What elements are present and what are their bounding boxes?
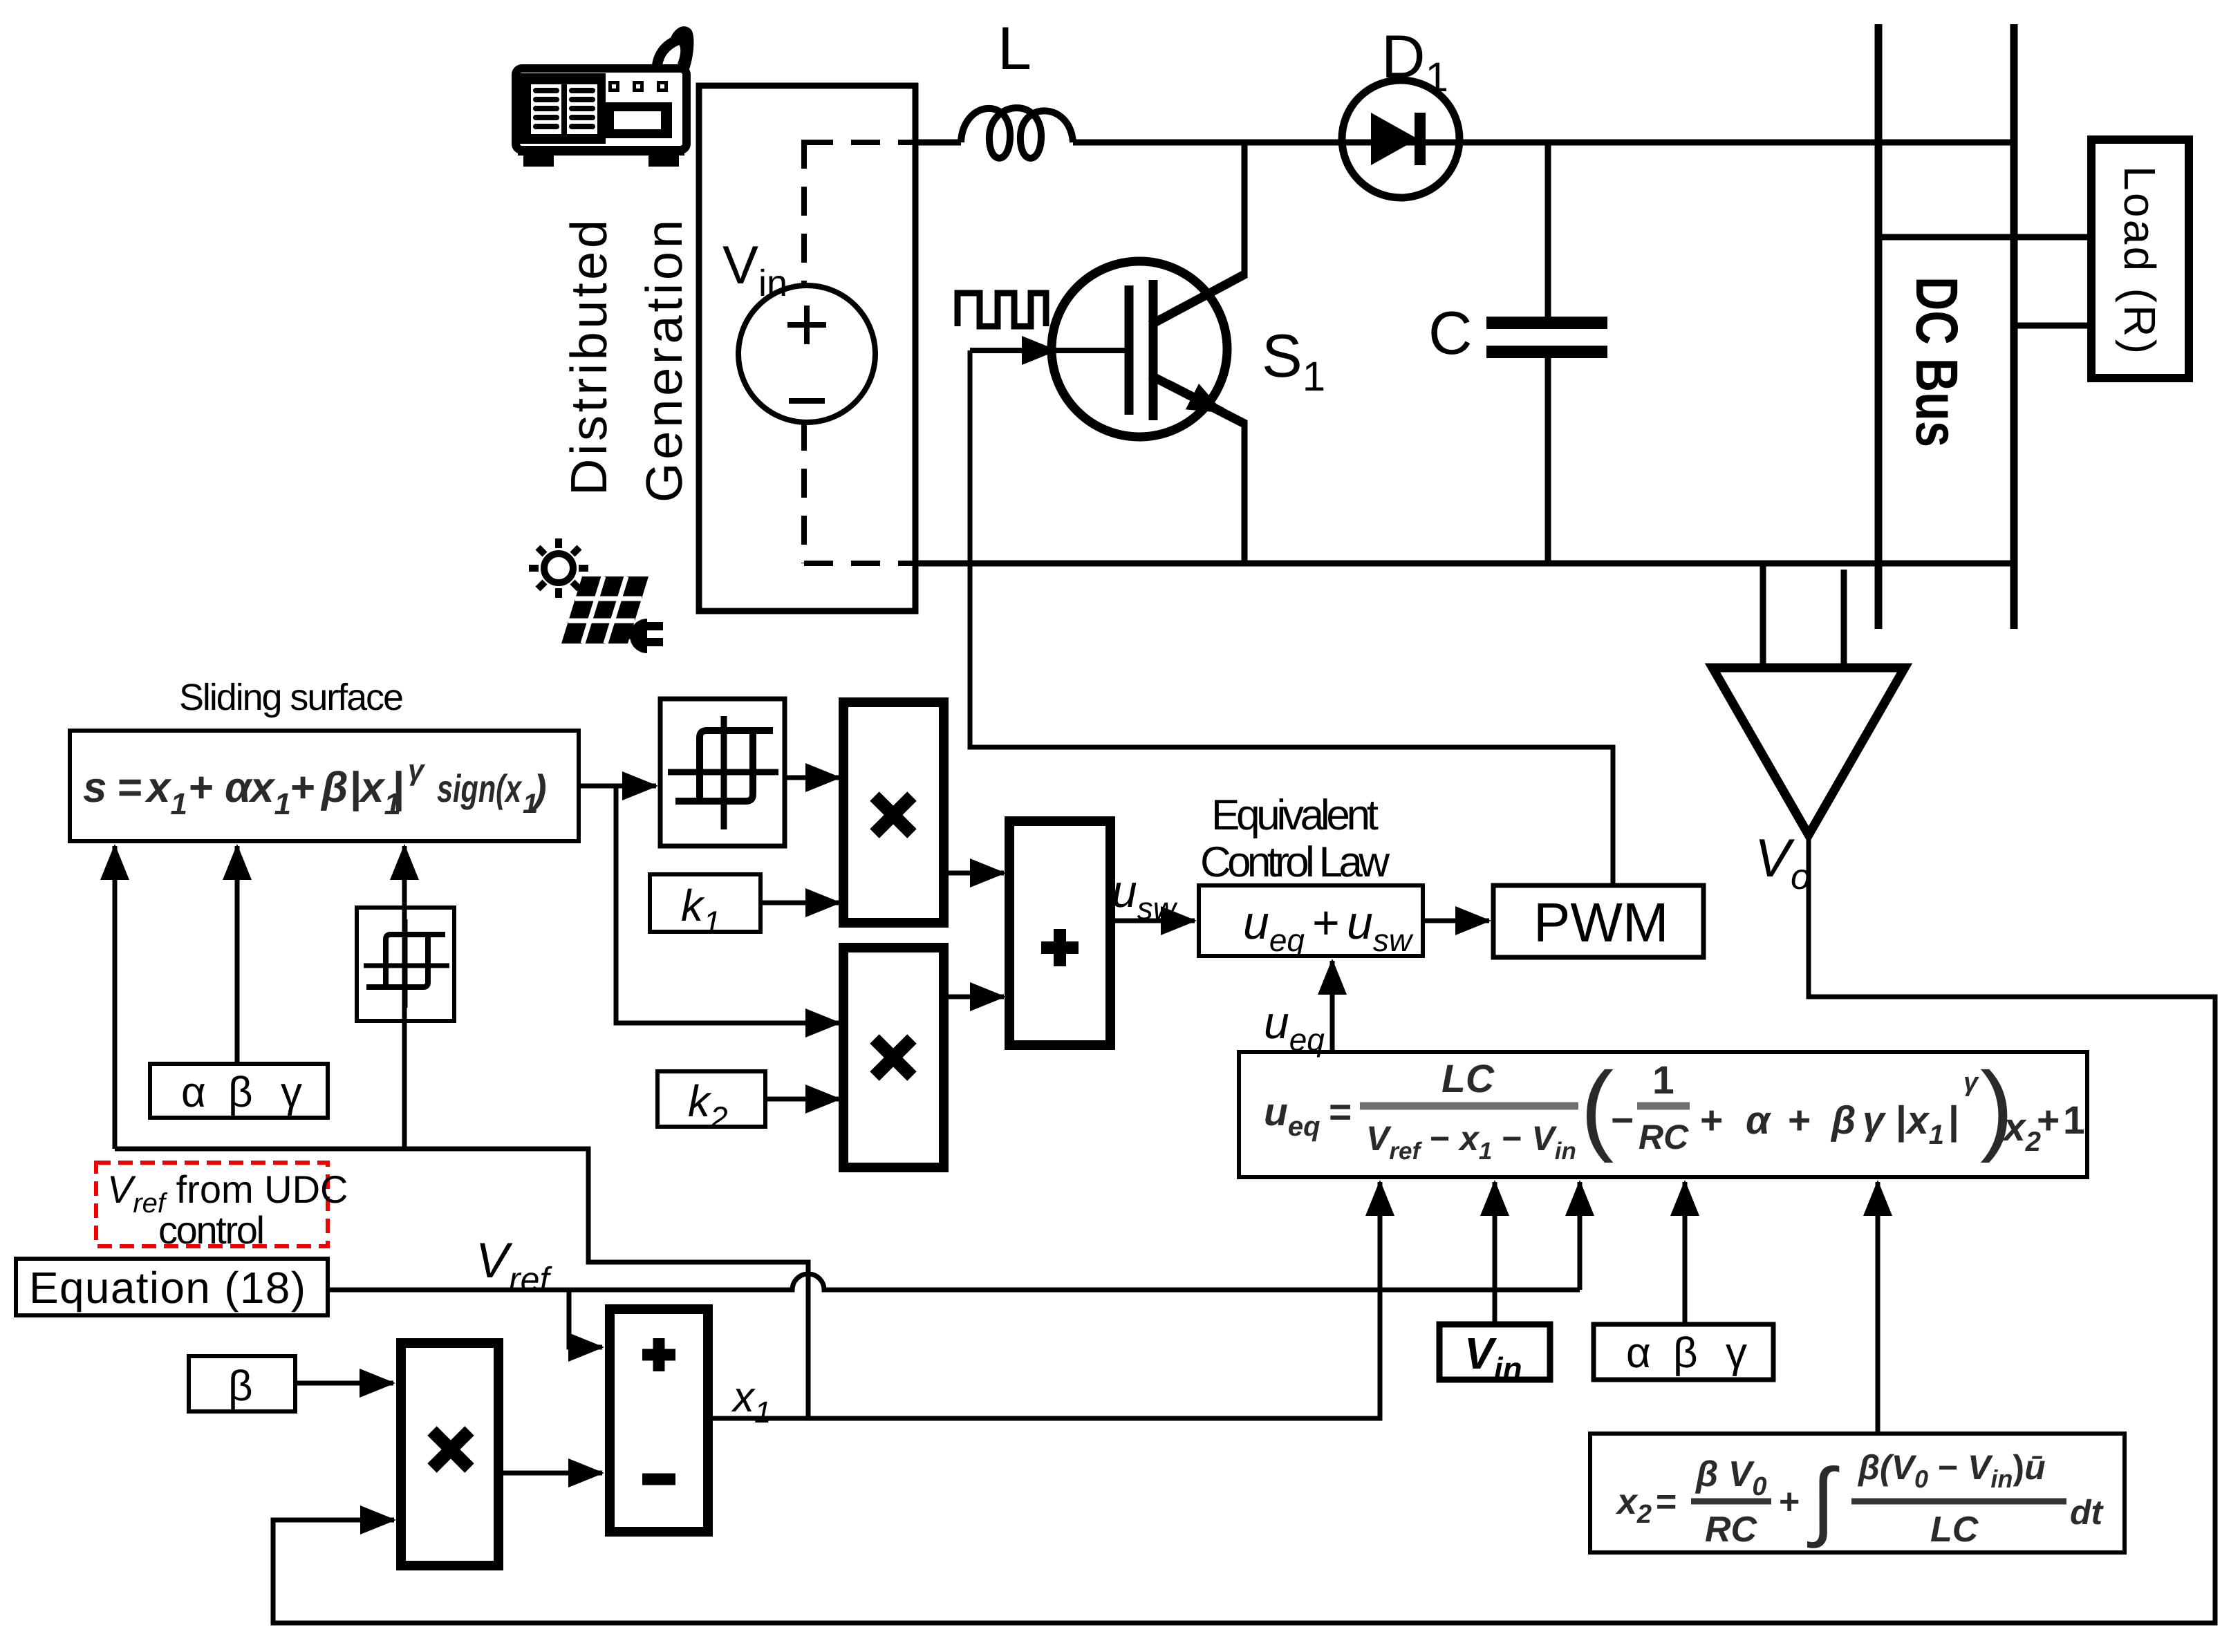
- arrow abg into equation (4): [1683, 1182, 1688, 1324]
- svg-text:+: +: [2037, 1098, 2060, 1143]
- wire load stub bottom: [2014, 323, 2091, 329]
- svg-text:Equivalent: Equivalent: [1211, 791, 1379, 839]
- x2 equation: [1615, 1448, 2104, 1550]
- wire mult2 to adder: [944, 995, 1004, 999]
- svg-text:β(V0 − Vin)ū: β(V0 − Vin)ū: [1857, 1448, 2046, 1493]
- diode D1: [1342, 80, 1459, 198]
- sliding surface equation: [83, 753, 547, 821]
- wire input top: [915, 140, 961, 146]
- wire s output: [579, 784, 656, 789]
- wire bottom rail: [913, 561, 2017, 567]
- svg-text:Load (R): Load (R): [2115, 166, 2165, 354]
- svg-text:Generation: Generation: [635, 220, 693, 503]
- wire PWM to gate: [970, 350, 1613, 885]
- summer block (+/-): [610, 1309, 708, 1532]
- wire s branch down: [616, 786, 839, 1023]
- wire L to diode: [1073, 140, 1342, 146]
- svg-text:+: +: [1779, 1482, 1800, 1522]
- wire k2 to mult2: [765, 1097, 839, 1102]
- svg-text:+: +: [1312, 897, 1340, 949]
- gain k2 box: [657, 1071, 765, 1127]
- arrow x2 into equation (5): [1876, 1182, 1880, 1434]
- DC bus bar left: [1875, 24, 1883, 629]
- voltage source Vin: [738, 285, 875, 422]
- Vin source box (bottom): [1439, 1324, 1550, 1380]
- svg-text:α: α: [181, 1069, 206, 1116]
- svg-text:=: =: [1329, 1090, 1352, 1134]
- beta gain box: [189, 1356, 295, 1411]
- svg-text:L: L: [998, 14, 1032, 82]
- svg-text:RC: RC: [1705, 1510, 1758, 1550]
- gate pulse glyph: [958, 293, 1046, 326]
- svg-text:γ: γ: [1863, 1098, 1887, 1143]
- svg-text:α: α: [225, 764, 253, 811]
- capacitor C: [1486, 142, 1607, 563]
- svg-text:dt: dt: [2070, 1493, 2104, 1532]
- svg-text:+: +: [1788, 1098, 1811, 1143]
- arrow x1 into equation (1): [708, 1182, 1380, 1418]
- svg-text:α: α: [1746, 1098, 1772, 1143]
- svg-text:+: +: [1700, 1098, 1723, 1143]
- svg-text:−: −: [1611, 1098, 1634, 1143]
- alpha beta gamma box (upper): [150, 1064, 328, 1118]
- wire diode to bus: [1459, 140, 2017, 146]
- multiplier 1: [843, 702, 944, 923]
- svg-text:s: s: [83, 764, 106, 811]
- wire Vo feedback: [273, 835, 2215, 1623]
- input arrows to sliding surface: [113, 846, 118, 1149]
- svg-text:+: +: [290, 764, 315, 811]
- wire usw to control law: [1110, 919, 1195, 923]
- wire mult3 to summer: [498, 1471, 602, 1476]
- svg-text:LC: LC: [1441, 1057, 1495, 1101]
- multiplier 2: [843, 948, 944, 1167]
- svg-text:α: α: [1626, 1329, 1651, 1377]
- svg-text:=: =: [1656, 1482, 1677, 1522]
- Vo sensor triangle: [1712, 668, 1905, 835]
- wire load stub top: [1878, 234, 2091, 241]
- svg-text:|: |: [393, 764, 404, 811]
- x2 observer equation box: [1590, 1434, 2125, 1552]
- svg-text:control: control: [158, 1208, 265, 1252]
- hysteresis block (x1 dot path): [357, 908, 454, 1021]
- wire relay to mult1: [785, 776, 839, 780]
- wire k1 to mult1: [760, 901, 839, 905]
- wire beta to mult3: [295, 1381, 393, 1386]
- wire control law to PWM: [1423, 919, 1489, 923]
- sliding surface block: [70, 731, 579, 841]
- svg-text:Sliding surface: Sliding surface: [179, 677, 404, 718]
- wire mult1 to adder: [944, 871, 1004, 876]
- svg-text:|: |: [1896, 1098, 1907, 1143]
- Equation (18) block: [16, 1259, 328, 1315]
- svg-text:β: β: [1673, 1329, 1698, 1377]
- arrow Vref into equation (3): [1578, 1182, 1583, 1290]
- svg-text:Equation (18): Equation (18): [29, 1263, 306, 1313]
- relay block (sign of s): [660, 699, 785, 846]
- svg-text:DC Bus: DC Bus: [1903, 276, 1970, 447]
- svg-text:γ: γ: [408, 753, 426, 786]
- svg-text:Distributed: Distributed: [560, 220, 617, 496]
- svg-text:γ: γ: [1963, 1068, 1979, 1097]
- svg-text:∫: ∫: [1807, 1452, 1840, 1548]
- svg-text:PWM: PWM: [1533, 892, 1669, 953]
- ueq equation: [1264, 1051, 2085, 1165]
- svg-text:γ: γ: [281, 1069, 302, 1116]
- PWM block: [1493, 885, 1704, 957]
- svg-text:1: 1: [2063, 1098, 2085, 1143]
- DG block box: [699, 86, 915, 611]
- alpha beta gamma box (bottom): [1594, 1324, 1773, 1380]
- svg-text:|: |: [1948, 1098, 1959, 1143]
- dashed source box: [804, 140, 913, 563]
- wire Vref to summer: [569, 1290, 602, 1347]
- transistor S1 (IGBT): [1052, 142, 1246, 563]
- svg-text:β: β: [1830, 1098, 1856, 1143]
- svg-text:(: (: [1580, 1051, 1614, 1163]
- gain k1 box: [650, 874, 760, 932]
- svg-text:sign(x: sign(x: [437, 767, 523, 810]
- equivalent control equation box: [1239, 1052, 2087, 1177]
- svg-text:+: +: [189, 764, 214, 811]
- wire hysteresis tap: [402, 1021, 407, 1149]
- gate lead wire: [970, 348, 1126, 353]
- generator icon: [516, 26, 693, 167]
- svg-text:β: β: [228, 1362, 253, 1410]
- red dashed note box: [96, 1163, 328, 1246]
- svg-text:=: =: [118, 764, 142, 811]
- wire ueq arrow: [1330, 961, 1335, 1052]
- svg-text:LC: LC: [1930, 1510, 1979, 1550]
- svg-text:β: β: [320, 764, 348, 811]
- inductor L: [961, 108, 1073, 158]
- solar panel icon with sun: [529, 538, 663, 653]
- svg-text:RC: RC: [1639, 1118, 1689, 1156]
- svg-text:C: C: [1428, 299, 1473, 367]
- adder block: [1009, 821, 1110, 1045]
- multiplier 3: [401, 1343, 498, 1566]
- wire Vref line: [328, 1274, 1580, 1290]
- wire x1 net to sliding inputs: [115, 1149, 808, 1418]
- svg-text:β: β: [228, 1069, 253, 1116]
- svg-text:γ: γ: [1726, 1329, 1747, 1377]
- load resistor box: [2091, 140, 2189, 378]
- Vo sensor taps: [1760, 563, 1766, 669]
- control law block ueq+usw: [1199, 885, 1423, 956]
- svg-text:1: 1: [1652, 1058, 1674, 1102]
- svg-text:Control Law: Control Law: [1200, 838, 1390, 886]
- arrow Vin into equation (2): [1493, 1182, 1497, 1324]
- DC bus bar right: [2010, 24, 2018, 629]
